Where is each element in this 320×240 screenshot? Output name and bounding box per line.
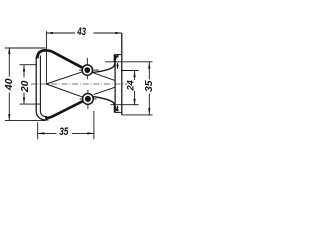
dim 40 bottom arrow bbox=[8, 114, 10, 121]
top slot arrow bbox=[117, 66, 119, 69]
back wire lower-left segment bbox=[46, 84, 82, 97]
lower eyelet outer circle bbox=[83, 94, 94, 105]
dim 35 bottom right arrow bbox=[87, 132, 94, 134]
dim 43 extension left bbox=[45, 31, 47, 84]
svg-text:24: 24 bbox=[126, 80, 136, 91]
dim 24 top extension bbox=[121, 70, 139, 72]
dim 35 right bottom arrow bbox=[148, 108, 150, 115]
plate left edge bbox=[114, 55, 116, 113]
upper eyelet outer circle bbox=[82, 65, 92, 75]
dim 43 right arrow bbox=[115, 32, 122, 34]
back wire lower-right segment bbox=[94, 87, 116, 94]
wire curve eyelet to top slot bbox=[92, 59, 115, 73]
back wire upper-right segment bbox=[93, 73, 116, 81]
dim 40 top arrow bbox=[8, 47, 10, 54]
dim 24 bottom arrow bbox=[134, 99, 136, 106]
svg-text:20: 20 bbox=[20, 80, 31, 93]
plate top edge bbox=[114, 54, 122, 56]
plate bottom edge bbox=[114, 111, 122, 113]
svg-text:43: 43 bbox=[76, 26, 86, 37]
wire curve eyelet to bottom slot bbox=[93, 97, 115, 111]
wire end hook in top slot bbox=[115, 56, 119, 60]
dim 24 bottom extension bbox=[111, 104, 139, 106]
dim 35 right top arrow bbox=[148, 62, 150, 69]
svg-text:40: 40 bbox=[4, 78, 15, 91]
svg-text:35: 35 bbox=[59, 126, 69, 138]
dim 35 right top extension bbox=[105, 61, 152, 63]
dim 35 right bottom extension bbox=[122, 114, 153, 116]
top slot left edge bbox=[113, 55, 115, 62]
bottom slot arrow bbox=[117, 108, 119, 111]
wire bail outer contour bbox=[36, 57, 48, 120]
dim 24 top arrow bbox=[134, 71, 136, 78]
wire end hook in bottom slot bbox=[115, 107, 119, 111]
dim 20 top extension bbox=[20, 64, 37, 66]
wire top bend and diagonal bbox=[37, 50, 82, 67]
dim 20 line bbox=[23, 65, 25, 104]
dim 40 top extension bbox=[5, 47, 46, 49]
lower eyelet core bbox=[85, 96, 91, 102]
dim 35 right line bbox=[148, 62, 150, 115]
dim 35 bottom left arrow bbox=[38, 132, 45, 134]
dim 43 left arrow bbox=[46, 32, 53, 34]
lower eyelet crosshair bbox=[80, 90, 97, 109]
dim 43 line bbox=[46, 32, 121, 34]
wire bail inner contour bbox=[40, 56, 47, 117]
dim 40 line bbox=[8, 47, 10, 120]
back wire upper-left segment bbox=[46, 72, 82, 84]
dim 20 top arrow bbox=[23, 65, 25, 72]
dim 20 bottom extension bbox=[20, 103, 41, 105]
dim 24 line bbox=[134, 71, 136, 106]
dim 35 bottom line bbox=[38, 132, 94, 134]
upper eyelet core bbox=[84, 67, 90, 73]
upper eyelet crosshair bbox=[79, 58, 99, 79]
dim 35 bottom right extension bbox=[93, 111, 95, 139]
dim 20 bottom arrow bbox=[23, 98, 25, 105]
wire bottom diagonal bbox=[45, 101, 82, 118]
dim 40 bottom extension bbox=[5, 120, 46, 122]
plate right edge bbox=[121, 33, 123, 115]
centerline bbox=[31, 83, 128, 85]
dim 35 bottom left extension bbox=[37, 122, 39, 139]
svg-text:35: 35 bbox=[144, 80, 155, 92]
bottom slot left edge bbox=[113, 105, 115, 113]
